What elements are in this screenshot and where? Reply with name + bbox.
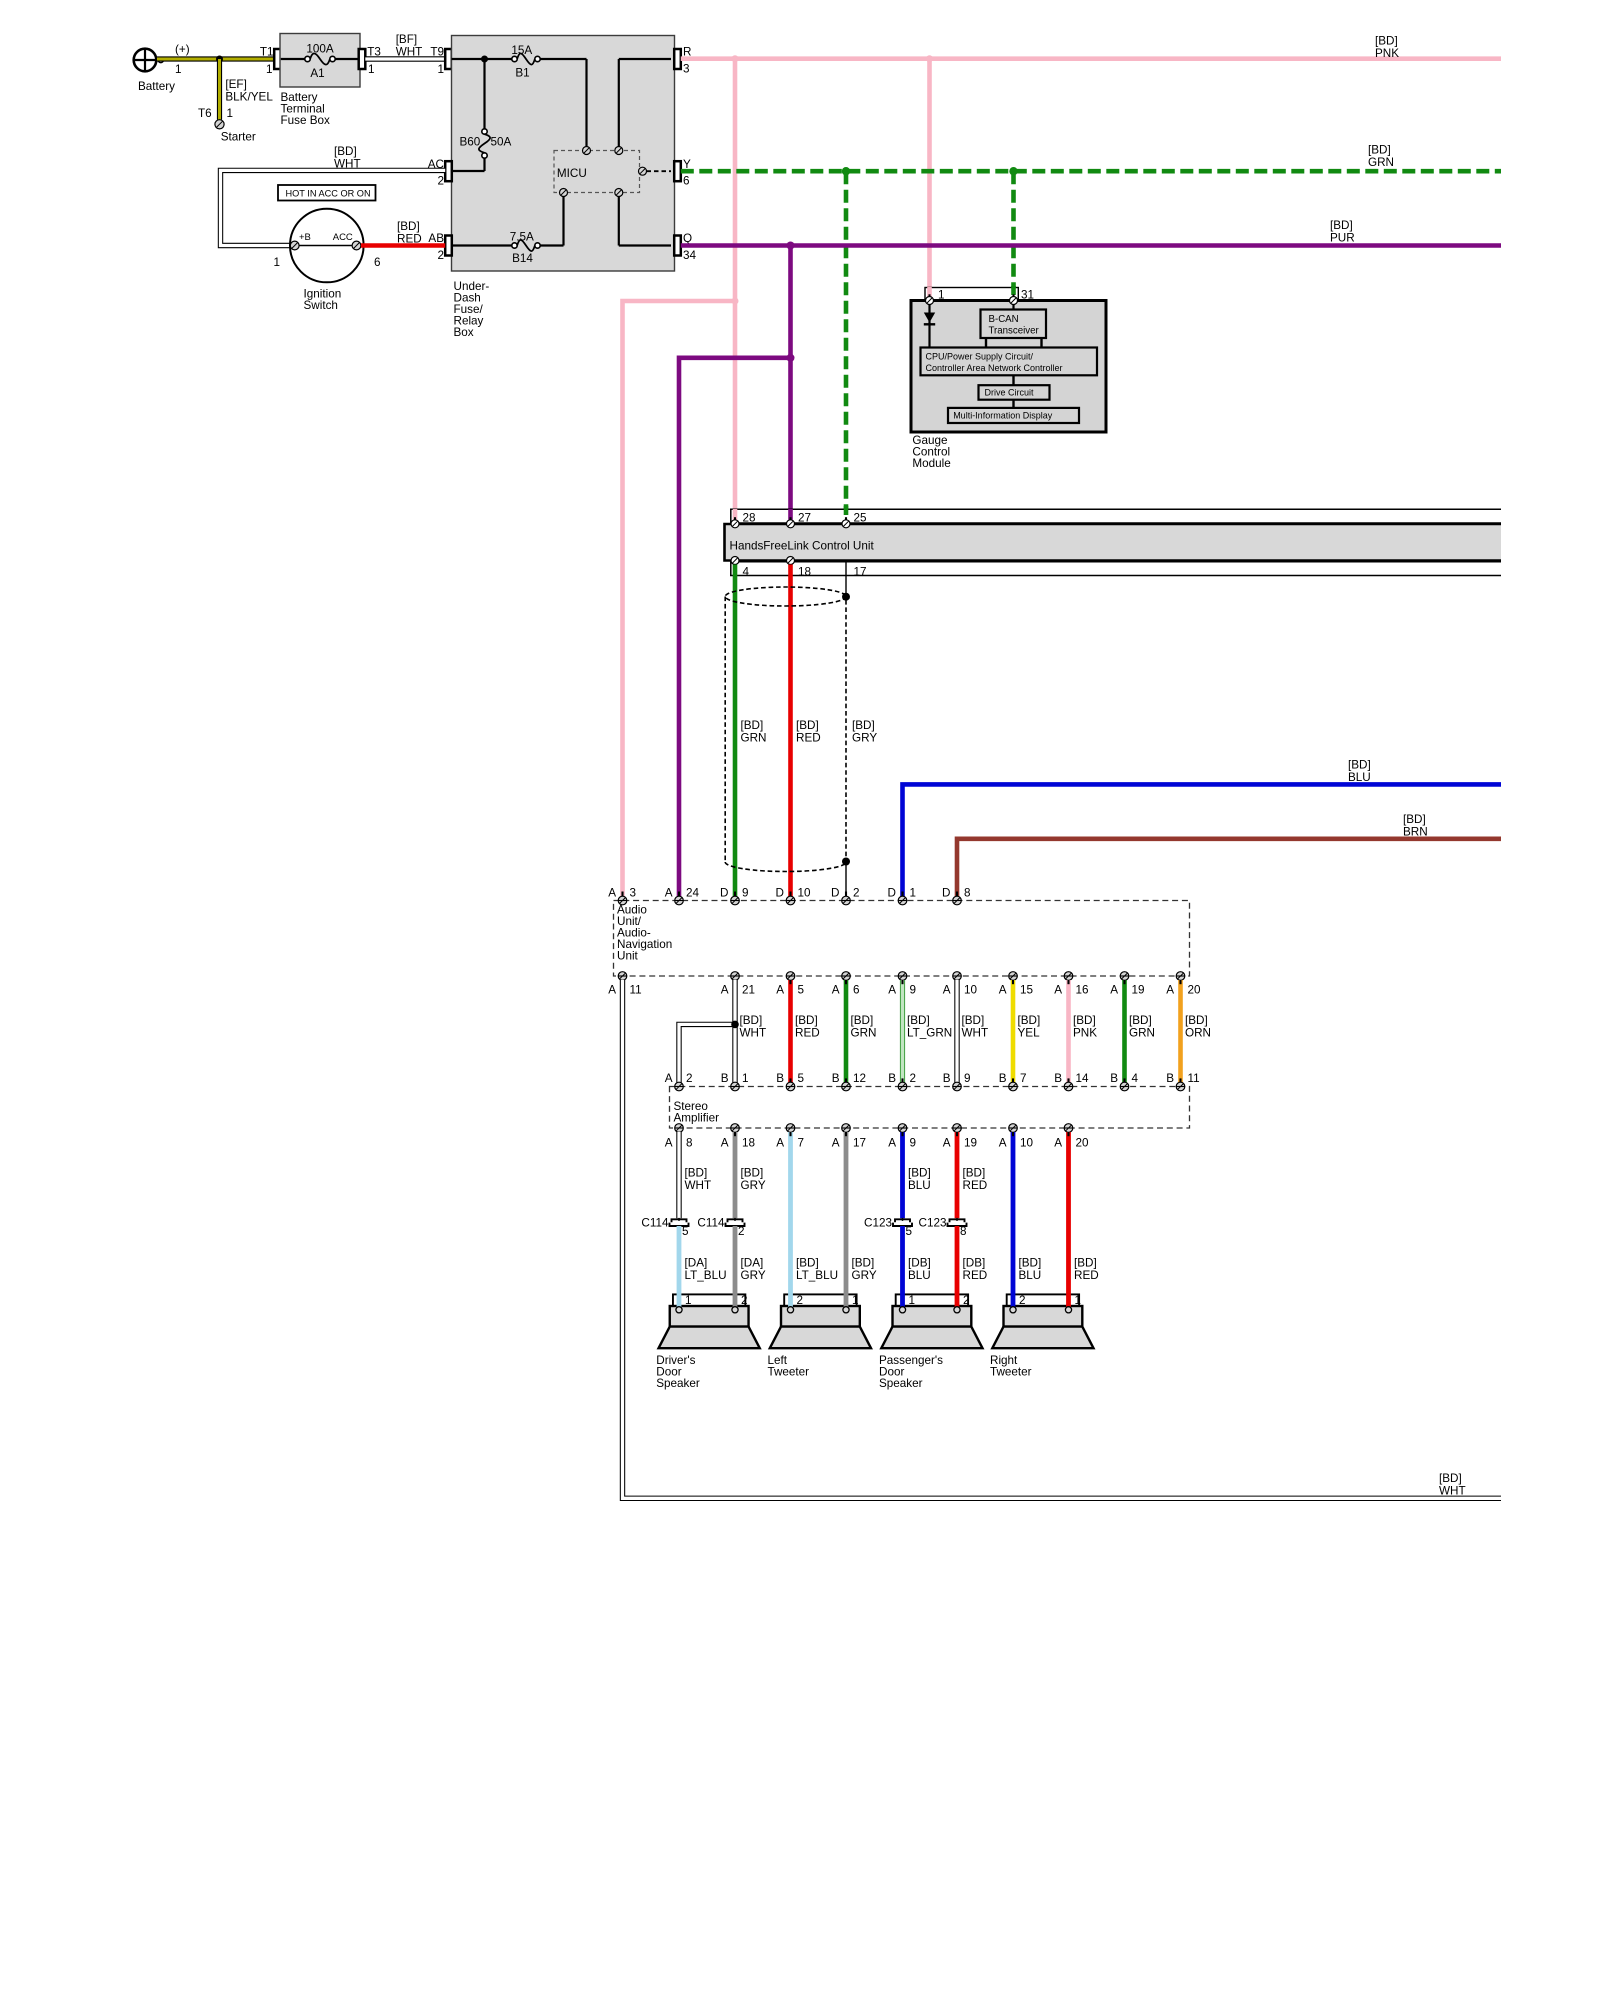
terminal Y — [674, 158, 691, 188]
svg-text:1: 1 — [266, 63, 273, 76]
passenger's door speaker pin 1 — [899, 1307, 905, 1313]
svg-text:A: A — [608, 886, 616, 899]
wire end tip below amp — [956, 1132, 958, 1136]
svg-text:14: 14 — [1076, 1072, 1090, 1085]
amp top pin B12 — [832, 1072, 866, 1091]
wire audio A10 to amp B9 [BD] WHT — [957, 980, 988, 1083]
svg-text:Amplifier: Amplifier — [674, 1112, 720, 1125]
HFL top connector strip — [730, 509, 1501, 524]
svg-text:Tweeter: Tweeter — [990, 1366, 1032, 1379]
svg-text:B60: B60 — [460, 136, 481, 149]
svg-text:19: 19 — [1132, 983, 1145, 996]
terminal AC — [428, 158, 452, 188]
audio unit top pin A24 — [665, 886, 700, 905]
svg-text:Transceiver: Transceiver — [989, 326, 1040, 337]
HOT IN ACC OR ON tag — [278, 185, 376, 201]
wire T9 to fuse B1 — [452, 58, 512, 60]
svg-text:2: 2 — [437, 175, 444, 188]
svg-text:GRY: GRY — [852, 1269, 877, 1282]
svg-text:[BD]: [BD] — [741, 1167, 764, 1180]
svg-text:[BD]: [BD] — [796, 719, 819, 732]
svg-text:5: 5 — [682, 1225, 689, 1238]
svg-text:BLU: BLU — [908, 1269, 931, 1282]
svg-text:5: 5 — [798, 983, 805, 996]
wires B-CAN to CPU — [986, 338, 1042, 348]
svg-text:1: 1 — [437, 63, 444, 76]
svg-text:A: A — [1166, 983, 1174, 996]
svg-text:GRN: GRN — [1129, 1027, 1155, 1040]
svg-text:1: 1 — [910, 886, 917, 899]
svg-text:2: 2 — [963, 1294, 970, 1307]
svg-text:A: A — [832, 1137, 840, 1150]
svg-text:T1: T1 — [260, 46, 274, 59]
driver's door speaker — [656, 1294, 760, 1390]
svg-text:WHT: WHT — [334, 158, 361, 171]
svg-text:A: A — [1054, 1137, 1062, 1150]
terminal AB — [428, 232, 451, 262]
green junction at gauge branch — [1009, 167, 1017, 175]
wire end tip — [789, 980, 791, 1083]
svg-text:1: 1 — [742, 1072, 749, 1085]
svg-text:6: 6 — [374, 256, 381, 269]
svg-text:GRN: GRN — [1368, 156, 1394, 169]
amp bottom pin A20 — [1054, 1124, 1089, 1150]
svg-text:11: 11 — [1188, 1072, 1200, 1085]
audio unit / audio-navigation unit box — [614, 901, 1190, 977]
wire HFL 18 to audio D10 [BD] RED — [791, 565, 821, 897]
audio unit bottom pin A19 — [1110, 972, 1144, 997]
wire MICU to terminal Q — [619, 197, 671, 246]
svg-text:[BD]: [BD] — [907, 1014, 930, 1027]
stereo amplifier box — [670, 1087, 1190, 1129]
svg-text:D: D — [831, 886, 839, 899]
svg-text:T9: T9 — [430, 46, 444, 59]
svg-text:18: 18 — [798, 565, 811, 578]
svg-text:2: 2 — [853, 886, 860, 899]
svg-text:ORN: ORN — [1185, 1027, 1211, 1040]
svg-text:6: 6 — [853, 983, 860, 996]
svg-text:[BD]: [BD] — [1074, 1256, 1097, 1269]
terminal T9 — [430, 46, 451, 77]
svg-text:27: 27 — [798, 512, 811, 525]
svg-text:[BD]: [BD] — [1019, 1256, 1042, 1269]
driver's door speaker pin 2 — [732, 1307, 738, 1313]
passenger's door speaker pin 2 — [954, 1307, 960, 1313]
svg-text:A: A — [776, 1137, 784, 1150]
wire C123 to passenger speaker [DB] BLU — [903, 1226, 931, 1307]
svg-text:RED: RED — [795, 1027, 820, 1040]
shield cylinder around twisted pair — [725, 587, 846, 872]
CPU/power supply block — [921, 348, 1098, 376]
svg-text:50A: 50A — [491, 136, 512, 149]
wire end tip — [901, 980, 903, 1083]
HFL bottom connector strip — [730, 562, 1501, 579]
amp bottom pin A18 — [721, 1124, 755, 1150]
wire end tip below amp — [789, 1132, 791, 1136]
audio unit bottom pin A6 — [832, 972, 860, 997]
terminal T3 — [359, 46, 381, 77]
wire PUR branch down to HFL pin 27 — [788, 246, 793, 521]
wire MICU to terminal R — [619, 59, 671, 147]
wire amp A9 to C123 [BD] BLU — [903, 1132, 931, 1218]
wire audio A19 to amp B4 [BD] GRN — [1125, 980, 1155, 1083]
fuse B60 50A — [460, 129, 512, 158]
svg-text:[DA]: [DA] — [741, 1256, 764, 1269]
svg-text:28: 28 — [743, 512, 756, 525]
svg-text:[BD]: [BD] — [851, 1014, 874, 1027]
wire C123 to passenger speaker [DB] RED — [957, 1226, 987, 1307]
gauge control module box — [911, 301, 1106, 471]
passenger's door speaker — [879, 1294, 983, 1390]
terminal R — [674, 46, 691, 76]
wire branch to amp A2 [BD] WHT — [679, 1024, 735, 1082]
wire [BD] BLU to audio D1 — [903, 759, 1502, 897]
pink junction at gauge branch — [926, 55, 933, 62]
wire PUR branch to audio unit pin A24 — [679, 358, 791, 897]
wire PNK over strip to pin 1 — [927, 287, 932, 300]
svg-text:RED: RED — [1074, 1269, 1099, 1282]
left tweeter pin 2 — [787, 1307, 793, 1313]
svg-text:[BD]: [BD] — [1018, 1014, 1041, 1027]
svg-text:CPU/Power Supply Circuit/: CPU/Power Supply Circuit/ — [926, 352, 1034, 362]
svg-text:BLU: BLU — [1348, 771, 1371, 784]
svg-text:1: 1 — [1075, 1294, 1082, 1307]
gauge control module connector strip — [925, 288, 1034, 302]
svg-text:[BD]: [BD] — [1403, 813, 1426, 826]
svg-text:A: A — [999, 1137, 1007, 1150]
audio unit bottom pin A20 — [1166, 972, 1201, 997]
amp bottom pin A19 — [943, 1124, 977, 1150]
svg-text:5: 5 — [906, 1225, 913, 1238]
starter terminal T6 — [198, 107, 256, 144]
svg-text:18: 18 — [742, 1137, 755, 1150]
wire GRN over strip to HFL pin 25 — [844, 506, 849, 520]
svg-text:1: 1 — [685, 1294, 692, 1307]
svg-text:2: 2 — [437, 249, 444, 262]
wire end tip — [1179, 980, 1181, 1083]
wire drive circuit to display — [1012, 400, 1014, 408]
svg-text:1: 1 — [909, 1294, 916, 1307]
shield junction top — [842, 593, 850, 601]
svg-text:[BD]: [BD] — [741, 719, 764, 732]
diode inside GCM — [924, 305, 935, 349]
svg-text:[BD]: [BD] — [963, 1167, 986, 1180]
wire PUR over strip to HFL pin 27 — [788, 509, 793, 520]
svg-text:9: 9 — [910, 1137, 917, 1150]
svg-text:100A: 100A — [306, 43, 334, 56]
wire amp A17 to left tweeter [BD] GRY — [844, 1132, 849, 1307]
svg-text:20: 20 — [1188, 983, 1202, 996]
audio unit top pin D2 — [831, 886, 859, 905]
amp bottom pin A10 — [999, 1124, 1034, 1150]
amp top pin B14 — [1054, 1072, 1089, 1091]
svg-text:D: D — [720, 886, 728, 899]
wire audio A16 to amp B14 [BD] PNK — [1069, 980, 1098, 1083]
svg-text:A: A — [1054, 983, 1062, 996]
connector C123 pin 5 — [864, 1216, 912, 1238]
audio unit bottom pin A10 — [943, 972, 978, 997]
svg-text:A: A — [608, 983, 616, 996]
wire B1 to MICU — [540, 59, 586, 147]
amp bottom pin A17 — [832, 1124, 866, 1150]
svg-text:5: 5 — [798, 1072, 805, 1085]
svg-text:[BD]: [BD] — [1368, 144, 1391, 157]
wire battery to T1 [EF] BLK/YEL — [157, 56, 274, 61]
svg-text:[BD]: [BD] — [685, 1167, 708, 1180]
wire amp A10 to right tweeter [BD] BLU — [1011, 1132, 1016, 1307]
B-CAN transceiver block — [981, 310, 1047, 339]
HFL pin 18 — [787, 557, 795, 569]
audio unit top pin D1 — [888, 886, 916, 905]
svg-text:Multi-Information Display: Multi-Information Display — [953, 411, 1053, 421]
wire T3 to T9 [BF] WHT — [365, 33, 445, 59]
terminal Q — [674, 232, 696, 262]
svg-text:A: A — [721, 1137, 729, 1150]
svg-text:7: 7 — [1020, 1072, 1027, 1085]
svg-text:[BD]: [BD] — [795, 1014, 818, 1027]
svg-text:B: B — [776, 1072, 784, 1085]
svg-text:A1: A1 — [310, 67, 324, 80]
wire GRN over strip to pin 31 — [1011, 286, 1016, 300]
svg-text:ACC: ACC — [333, 232, 353, 243]
audio unit bottom pin A9 — [888, 972, 916, 997]
svg-text:B1: B1 — [515, 67, 529, 80]
svg-text:9: 9 — [964, 1072, 971, 1085]
svg-text:15: 15 — [1020, 983, 1034, 996]
wire amp A8 to C114 [BD] WHT — [679, 1132, 711, 1218]
fuse B1 15A — [511, 44, 540, 80]
wire end tip below amp — [845, 1132, 847, 1136]
svg-text:D: D — [776, 886, 784, 899]
amp top pin B11 — [1166, 1072, 1199, 1091]
svg-text:3: 3 — [630, 886, 637, 899]
svg-text:[BD]: [BD] — [1330, 219, 1353, 232]
svg-text:10: 10 — [1020, 1137, 1034, 1150]
svg-text:[BD]: [BD] — [334, 145, 357, 158]
wire audio A20 to amp B11 [BD] ORN — [1181, 980, 1211, 1083]
connector C114 pin 5 — [641, 1216, 689, 1238]
svg-text:RED: RED — [796, 732, 821, 745]
svg-text:7.5A: 7.5A — [510, 231, 534, 244]
svg-text:HOT IN ACC OR ON: HOT IN ACC OR ON — [286, 188, 371, 198]
GCM pin 31 — [1010, 294, 1018, 304]
wire B60 to terminal AC — [452, 158, 485, 171]
svg-text:WHT: WHT — [962, 1027, 989, 1040]
svg-text:Controller Area Network Contro: Controller Area Network Controller — [926, 363, 1063, 373]
svg-text:A: A — [943, 983, 951, 996]
svg-text:2: 2 — [686, 1072, 693, 1085]
svg-text:Tweeter: Tweeter — [768, 1366, 810, 1379]
battery terminal fuse box — [280, 34, 360, 128]
svg-text:21: 21 — [742, 983, 755, 996]
HFL pin 27 — [787, 517, 795, 528]
left tweeter — [768, 1294, 872, 1379]
right tweeter pin 1 — [1065, 1307, 1071, 1313]
label [BD] RED right tweeter wire — [1074, 1256, 1099, 1281]
green junction at HFL branch — [842, 167, 850, 175]
wire end tip — [845, 980, 847, 1083]
svg-text:A: A — [665, 1137, 673, 1150]
svg-text:19: 19 — [964, 1137, 977, 1150]
svg-text:15A: 15A — [511, 44, 532, 57]
svg-text:BLK/YEL: BLK/YEL — [225, 91, 273, 104]
amp top pin B7 — [999, 1072, 1027, 1091]
svg-text:A: A — [999, 983, 1007, 996]
svg-text:D: D — [888, 886, 896, 899]
svg-text:[BD]: [BD] — [397, 220, 420, 233]
junction audio A21 branch — [731, 1021, 739, 1029]
label [BD] GRY left tweeter wire — [852, 1256, 877, 1281]
svg-text:9: 9 — [742, 886, 749, 899]
svg-text:[BD]: [BD] — [1348, 759, 1371, 772]
svg-text:BRN: BRN — [1403, 826, 1428, 839]
amp top pin B5 — [776, 1072, 804, 1091]
svg-text:A: A — [665, 1072, 673, 1085]
svg-text:Switch: Switch — [304, 299, 338, 312]
svg-text:[DA]: [DA] — [685, 1256, 708, 1269]
svg-text:BLU: BLU — [1019, 1269, 1042, 1282]
junction node B1/B60 — [481, 56, 488, 63]
svg-text:A: A — [721, 983, 729, 996]
purple junction at HFL branch — [787, 242, 795, 250]
wire end tip below amp — [734, 1132, 736, 1136]
svg-text:[BD]: [BD] — [1185, 1014, 1208, 1027]
svg-text:Speaker: Speaker — [656, 1377, 700, 1390]
multi-information display block — [948, 408, 1079, 423]
svg-text:MICU: MICU — [557, 167, 587, 180]
wire HFL 4 to audio D9 [BD] GRN — [735, 565, 766, 897]
wire B14 to MICU — [540, 197, 563, 246]
svg-text:A: A — [665, 886, 673, 899]
amp bottom pin A7 — [776, 1124, 804, 1150]
wire [BD] PNK trunk — [681, 35, 1501, 61]
svg-text:B: B — [943, 1072, 951, 1085]
terminal T1 — [260, 46, 281, 77]
svg-text:[BD]: [BD] — [796, 1256, 819, 1269]
audio unit top pin A3 — [608, 886, 636, 905]
audio unit bottom pin A16 — [1054, 972, 1088, 997]
right tweeter pin 2 — [1010, 1307, 1016, 1313]
driver's door speaker pin 1 — [676, 1307, 682, 1313]
svg-text:HandsFreeLink Control Unit: HandsFreeLink Control Unit — [730, 539, 875, 552]
svg-text:Starter: Starter — [221, 131, 256, 144]
wire [BD] GRN trunk (dashed) — [681, 144, 1501, 172]
MICU pin top-left — [583, 147, 591, 155]
svg-text:WHT: WHT — [396, 46, 423, 59]
amp bottom pin A9 — [888, 1124, 916, 1150]
wire [BD] BRN to audio D8 — [957, 813, 1501, 897]
shield junction bottom — [842, 858, 850, 866]
svg-text:6: 6 — [683, 175, 690, 188]
connector C114 pin 2 — [697, 1216, 744, 1238]
svg-text:B: B — [1110, 1072, 1118, 1085]
wire CPU to drive circuit — [1012, 375, 1014, 385]
audio unit bottom pin A21 — [721, 972, 755, 997]
svg-text:2: 2 — [910, 1072, 917, 1085]
svg-text:[BF]: [BF] — [396, 33, 417, 46]
purple junction at audio branch — [787, 354, 795, 362]
svg-text:C114: C114 — [697, 1216, 725, 1229]
wire audio A5 to amp B5 [BD] RED — [791, 980, 820, 1083]
svg-text:B: B — [888, 1072, 896, 1085]
HFL pin 28 — [731, 517, 739, 528]
svg-text:34: 34 — [683, 249, 697, 262]
svg-text:11: 11 — [630, 983, 642, 996]
svg-text:B: B — [832, 1072, 840, 1085]
battery B+ symbol — [134, 43, 190, 93]
svg-text:A: A — [1110, 983, 1118, 996]
svg-text:2: 2 — [738, 1225, 745, 1238]
svg-text:T6: T6 — [198, 107, 212, 120]
svg-text:[BD]: [BD] — [962, 1014, 985, 1027]
svg-text:Speaker: Speaker — [879, 1377, 923, 1390]
right tweeter — [990, 1294, 1094, 1379]
wire end tip — [1123, 980, 1125, 1083]
svg-text:YEL: YEL — [1018, 1027, 1041, 1040]
svg-text:A: A — [888, 983, 896, 996]
svg-text:GRN: GRN — [851, 1027, 877, 1040]
svg-text:C123: C123 — [864, 1216, 892, 1229]
svg-text:Drive Circuit: Drive Circuit — [985, 388, 1035, 398]
svg-text:8: 8 — [964, 886, 971, 899]
HandsFreeLink control unit box — [725, 524, 1502, 561]
wire end tip below amp — [1067, 1132, 1069, 1136]
wire PNK branch down to HFL pin 28 — [733, 59, 738, 520]
svg-text:[BD]: [BD] — [1439, 1472, 1462, 1485]
svg-text:[EF]: [EF] — [225, 78, 246, 91]
wire end tip — [1012, 980, 1014, 1083]
svg-text:9: 9 — [910, 983, 917, 996]
MICU pin right — [639, 167, 647, 175]
drive circuit block — [979, 385, 1050, 400]
svg-text:3: 3 — [683, 63, 690, 76]
svg-text:20: 20 — [1076, 1137, 1090, 1150]
fuse A1 100A — [281, 43, 359, 81]
svg-text:C123: C123 — [919, 1216, 947, 1229]
wire junction to fuse B60 — [483, 59, 485, 129]
wire amp A18 to C114 [BD] GRY — [735, 1132, 766, 1218]
svg-text:8: 8 — [960, 1225, 967, 1238]
svg-text:A: A — [888, 1137, 896, 1150]
fuse B14 7.5A — [452, 231, 541, 266]
ignition +B pin 1 — [290, 241, 299, 250]
amp top pin B4 — [1110, 1072, 1138, 1091]
amp bottom pin A8 — [665, 1124, 693, 1150]
svg-text:GRY: GRY — [852, 732, 877, 745]
svg-text:B: B — [1166, 1072, 1174, 1085]
MICU box — [554, 151, 640, 193]
svg-text:A: A — [943, 1137, 951, 1150]
wire audio A15 to amp B7 [BD] YEL — [1013, 980, 1040, 1083]
wire PNK branch to audio unit pin A3 — [623, 301, 736, 897]
pink junction at audio branch — [732, 298, 739, 305]
audio unit top pin D8 — [942, 886, 970, 905]
svg-text:GRY: GRY — [741, 1179, 766, 1192]
wire end tip below amp — [901, 1132, 903, 1136]
svg-text:AB: AB — [428, 232, 444, 245]
svg-text:C114: C114 — [641, 1216, 669, 1229]
wire PNK over strip to HFL pin 28 — [733, 509, 738, 520]
svg-text:1: 1 — [852, 1294, 859, 1307]
svg-text:1: 1 — [273, 256, 280, 269]
svg-text:2: 2 — [797, 1294, 804, 1307]
shield drain wire HFL 17 [BD] GRY — [846, 561, 877, 745]
svg-text:10: 10 — [964, 983, 978, 996]
connector C123 pin 8 — [919, 1216, 967, 1238]
ignition ACC pin 6 — [352, 241, 361, 250]
wire MICU to terminal Y — [647, 170, 672, 172]
svg-text:LT_GRN: LT_GRN — [907, 1027, 952, 1040]
